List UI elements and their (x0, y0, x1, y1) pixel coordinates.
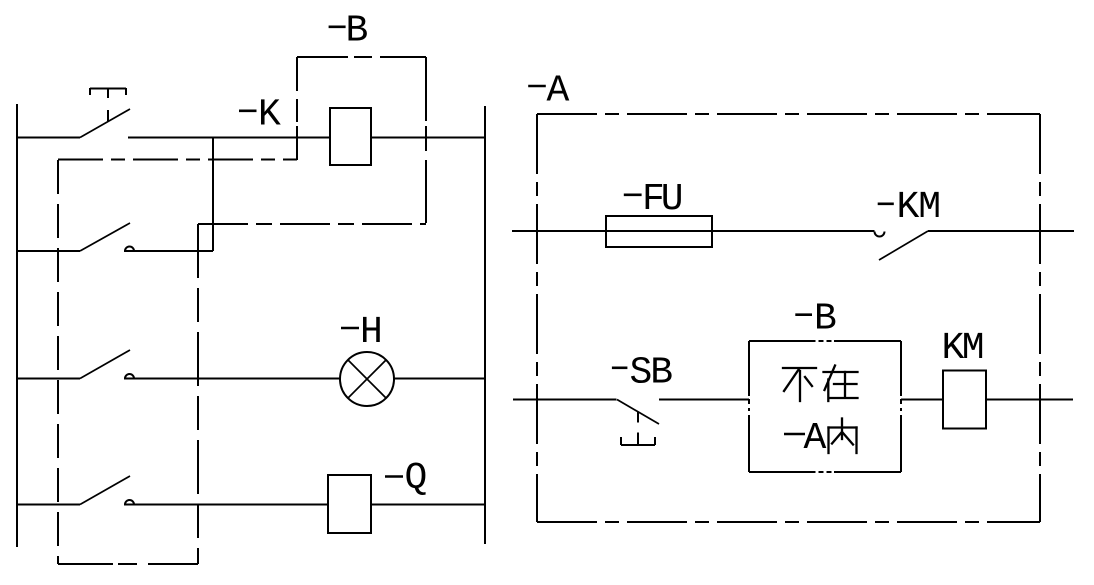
svg-text:B: B (346, 10, 369, 53)
svg-text:SB: SB (630, 352, 673, 395)
svg-text:A: A (804, 417, 827, 460)
svg-text:B: B (814, 298, 837, 341)
svg-text:FU: FU (642, 178, 682, 221)
svg-text:A: A (547, 70, 570, 113)
svg-text:K: K (258, 94, 281, 137)
svg-text:KM: KM (897, 186, 941, 229)
svg-text:Q: Q (405, 457, 428, 500)
svg-text:H: H (360, 311, 383, 354)
svg-text:KM: KM (942, 327, 983, 370)
